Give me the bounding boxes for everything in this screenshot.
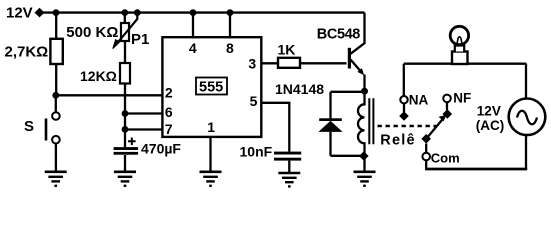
- relay K1 core lines: [369, 98, 373, 144]
- wire P1 to resistor 12K: [124, 41, 126, 63]
- svg-text:555: 555: [199, 79, 223, 95]
- svg-text:470µF: 470µF: [141, 140, 181, 156]
- svg-text:2,7KΩ: 2,7KΩ: [5, 44, 49, 61]
- wire trigger net down to switch S: [55, 95, 57, 112]
- AC source V1 circle: [509, 99, 546, 136]
- svg-text:12V: 12V: [477, 103, 501, 118]
- svg-text:4: 4: [189, 40, 197, 56]
- contact NF terminal circle: [443, 95, 451, 103]
- wire lamp net down to contact NA: [403, 64, 405, 96]
- wire node to diode D1 top: [331, 91, 365, 93]
- transistor Q1 base bar: [348, 48, 351, 69]
- capacitor C2 10nF top plate: [274, 152, 301, 155]
- wire NA circle to NA pad: [403, 103, 405, 112]
- capacitor C1 470uF plus sign: [128, 138, 136, 146]
- contact NA pad diamond: [399, 111, 409, 121]
- svg-text:S: S: [24, 118, 34, 135]
- svg-text:1K: 1K: [278, 42, 296, 58]
- wire relay node to ground: [363, 155, 365, 171]
- lamp LP1 base block: [452, 52, 468, 65]
- junction emitter / diode / relay coil: [361, 88, 368, 95]
- junction rail to pin 8: [227, 9, 234, 16]
- junction relay coil / diode / ground: [359, 151, 369, 161]
- svg-text:5: 5: [250, 93, 258, 109]
- wire pin 1 to ground: [209, 137, 211, 171]
- svg-text:Relê: Relê: [380, 132, 415, 148]
- diode D1 1N4148 cathode bar: [319, 118, 342, 121]
- contact arm pivot diamond: [421, 134, 431, 144]
- svg-text:3: 3: [248, 55, 256, 71]
- svg-text:Com: Com: [431, 150, 460, 165]
- svg-text:7: 7: [165, 121, 173, 137]
- wire 10nF to ground: [288, 161, 290, 173]
- svg-text:12V: 12V: [6, 5, 33, 22]
- mechanical link dashed wire relay to contact arm: [378, 125, 437, 127]
- wire NF circle to NF pad: [446, 102, 448, 110]
- resistor 2,7K ohm body: [50, 39, 62, 64]
- lamp LP1 filament: [457, 37, 463, 46]
- potentiometer P1 wiper arrow: [116, 13, 138, 46]
- wire rail to resistor 2,7K: [55, 13, 57, 39]
- wire pin 5 to capacitor 10nF: [261, 103, 289, 152]
- diode D1 1N4148 triangle: [318, 121, 342, 132]
- wire pivot to Com circle: [425, 144, 427, 153]
- relay switch arm with arrow: [426, 119, 443, 139]
- svg-text:1: 1: [207, 119, 215, 135]
- wire Com to bottom rail: [425, 160, 427, 169]
- wire lamp top rail: [404, 63, 526, 65]
- wire 12K to threshold/discharge net: [124, 84, 126, 149]
- wire pin 6 to threshold net: [125, 112, 162, 114]
- wire diode D1 top lead: [329, 92, 331, 119]
- op timer IC U1 555 outline: [162, 37, 261, 137]
- capacitor C2 10nF bottom plate: [274, 158, 301, 161]
- ground under relay: [354, 172, 376, 186]
- wire resistor 2,7K to trigger net: [55, 64, 57, 95]
- potentiometer P1 body: [121, 23, 129, 41]
- wire 12V top rail: [43, 11, 365, 13]
- svg-text:12KΩ: 12KΩ: [80, 68, 117, 84]
- junction rail to pin 4: [190, 9, 197, 16]
- wire pin 4 to rail: [192, 13, 194, 39]
- contact NA terminal circle: [400, 96, 407, 103]
- wire rail to potentiometer P1: [124, 13, 126, 23]
- capacitor C1 470uF bottom plate: [114, 152, 139, 155]
- ground under S: [45, 172, 67, 186]
- relay K1 coil: [358, 91, 365, 155]
- lamp LP1 neck: [455, 46, 464, 52]
- svg-text:P1: P1: [131, 31, 149, 48]
- junction rail to R 2,7K: [53, 9, 60, 16]
- wire 1K to base of Q1: [300, 62, 347, 64]
- wire pin 7 to discharge net: [125, 128, 162, 130]
- svg-text:8: 8: [226, 40, 234, 56]
- svg-text:1N4148: 1N4148: [275, 81, 324, 97]
- resistor 12K body: [120, 63, 130, 84]
- junction rail to P1 body: [121, 9, 128, 16]
- transistor Q1 emitter lead with arrow: [351, 60, 362, 73]
- pushbutton S top contact: [52, 112, 60, 120]
- transistor Q1 collector lead: [351, 13, 365, 54]
- svg-text:(AC): (AC): [476, 118, 505, 133]
- wire trigger net to pin 2: [56, 94, 163, 96]
- contact NF pad diamond: [443, 109, 453, 119]
- ground under 10nF: [278, 173, 300, 186]
- wire emitter to relay node: [363, 75, 365, 92]
- wire C1 to ground: [124, 155, 126, 171]
- resistor 1K body: [278, 58, 300, 68]
- node 12V terminal diamond: [35, 8, 45, 18]
- part label 555 box: [196, 78, 227, 95]
- wire pin 3 to resistor 1K: [261, 62, 278, 64]
- junction trigger net (2,7K / S / pin 2): [52, 92, 59, 99]
- pushbutton S actuator bar: [45, 119, 48, 141]
- contact Com terminal circle: [422, 153, 430, 161]
- AC source sine symbol: [517, 111, 537, 125]
- svg-text:10nF: 10nF: [240, 143, 273, 159]
- ground under C1: [114, 172, 136, 186]
- wire diode bottom to relay bottom node: [331, 155, 365, 157]
- wire pin 8 to rail: [229, 13, 231, 39]
- wire bottom rail Com to source: [425, 168, 527, 171]
- junction 12K net with pin 7 wire: [122, 126, 129, 133]
- svg-text:500 KΩ: 500 KΩ: [66, 24, 118, 41]
- junction 12K net with pin 6 wire: [122, 110, 129, 117]
- svg-text:2: 2: [165, 84, 173, 100]
- svg-text:6: 6: [165, 104, 173, 120]
- svg-text:BC548: BC548: [317, 27, 360, 43]
- svg-text:NA: NA: [409, 92, 429, 107]
- ground under pin 1: [200, 172, 222, 186]
- wire AC source to bottom rail: [525, 135, 527, 169]
- wire diode D1 bottom lead: [329, 132, 331, 156]
- wire switch S to ground: [55, 144, 57, 172]
- junction rail to P1 wiper: [134, 9, 141, 16]
- capacitor C1 470uF top plate: [114, 147, 139, 150]
- lamp LP1 bulb: [450, 26, 468, 44]
- pushbutton S bottom contact: [52, 136, 60, 144]
- wire right side down to AC source: [525, 63, 527, 98]
- svg-text:NF: NF: [453, 90, 471, 105]
